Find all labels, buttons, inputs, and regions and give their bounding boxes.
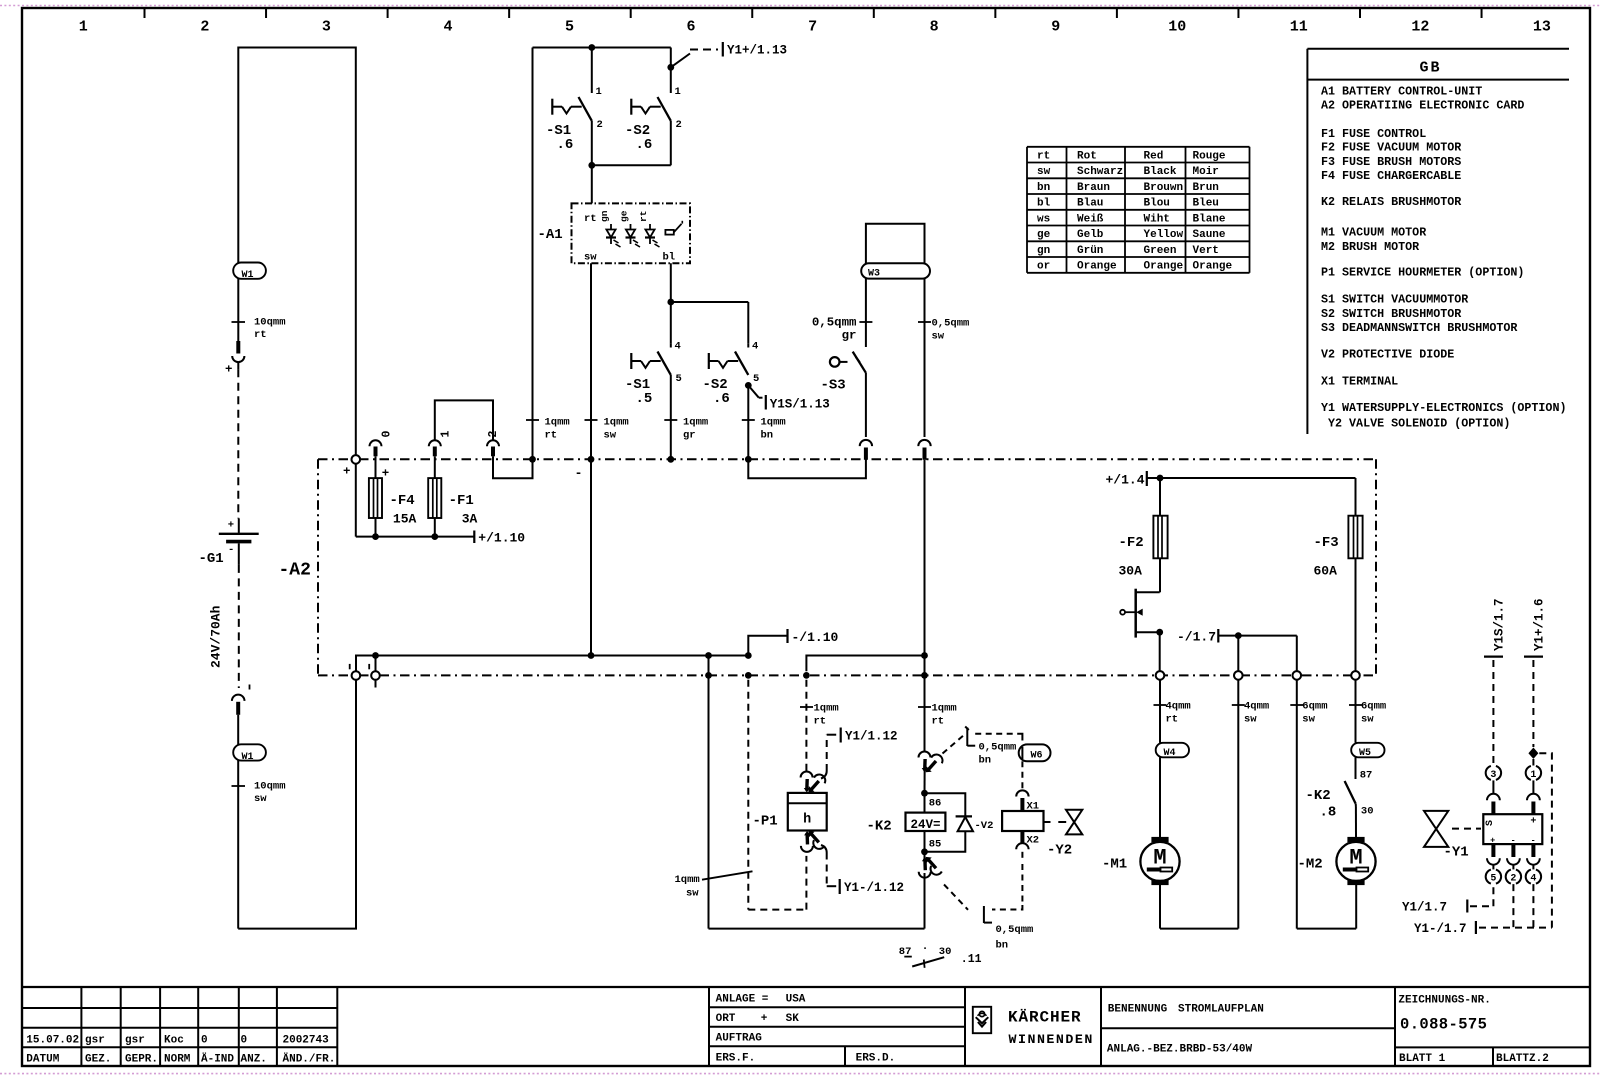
svg-text:ZEICHNUNGS-NR.: ZEICHNUNGS-NR.: [1398, 995, 1490, 1007]
svg-text:Rot: Rot: [1077, 150, 1097, 162]
svg-text:+: +: [1490, 835, 1495, 845]
svg-text:2: 2: [200, 19, 209, 36]
svg-text:Vert: Vert: [1193, 245, 1219, 257]
switch S2 upper (pins 1-2): [625, 48, 682, 154]
svg-text:13: 13: [1533, 19, 1551, 36]
svg-text:Weiß: Weiß: [1077, 213, 1104, 225]
svg-text:P1 SERVICE HOURMETER (OPTION): P1 SERVICE HOURMETER (OPTION): [1321, 265, 1524, 279]
terminal block X1: [1002, 811, 1043, 831]
svg-text:86: 86: [929, 798, 942, 810]
svg-text:bn: bn: [761, 430, 774, 442]
svg-text:W5: W5: [1359, 748, 1371, 759]
svg-text:ERS.D.: ERS.D.: [856, 1053, 896, 1065]
svg-text:M1 VACUUM MOTOR: M1 VACUUM MOTOR: [1321, 226, 1426, 240]
plug connector W3-sw to A2: [918, 440, 930, 460]
reference Y1+/1.13: [667, 42, 787, 71]
svg-text:-F4: -F4: [390, 493, 415, 509]
svg-text:6qmm: 6qmm: [1361, 701, 1386, 713]
svg-text:Brun: Brun: [1193, 182, 1219, 194]
reference -/1.10: [748, 629, 838, 656]
svg-text:3: 3: [1490, 770, 1496, 781]
svg-text:V2 PROTECTIVE DIODE: V2 PROTECTIVE DIODE: [1321, 347, 1454, 361]
svg-text:rt: rt: [545, 430, 558, 442]
svg-text:F1 FUSE CONTROL: F1 FUSE CONTROL: [1321, 127, 1426, 141]
cable marker W4: [1156, 743, 1189, 759]
contact cross-reference 87/30 .11: [899, 944, 982, 968]
svg-text:W1: W1: [242, 270, 254, 281]
svg-text:0,5qmm: 0,5qmm: [979, 742, 1017, 754]
svg-text:Ä-IND: Ä-IND: [201, 1053, 234, 1066]
svg-text:5: 5: [676, 373, 682, 385]
wire 1qmm rt riser and top rail: [526, 44, 671, 463]
svg-text:-/1.7: -/1.7: [1177, 630, 1216, 645]
plug connector K2 bottom: [919, 857, 942, 929]
svg-text:Wiht: Wiht: [1144, 213, 1170, 225]
svg-text:+/1.10: +/1.10: [478, 531, 525, 546]
svg-text:sw: sw: [584, 252, 597, 264]
vacuum motor M1: [1102, 757, 1180, 885]
svg-text:gn: gn: [1037, 245, 1050, 257]
svg-text:0,5qmm: 0,5qmm: [996, 924, 1034, 936]
svg-text:3A: 3A: [462, 512, 478, 527]
svg-text:Y1+/1.6: Y1+/1.6: [1532, 598, 1546, 651]
svg-text:24V/70Ah: 24V/70Ah: [209, 605, 224, 668]
fuse F1 3A: [428, 456, 477, 536]
wire designation 0,5qmm bn lower: [944, 885, 1033, 952]
svg-text:rt: rt: [1166, 714, 1179, 726]
svg-text:+: +: [761, 1013, 768, 1025]
svg-text:BLATT 1: BLATT 1: [1399, 1053, 1446, 1065]
svg-text:-Y1: -Y1: [1444, 845, 1469, 861]
svg-text:-F3: -F3: [1314, 535, 1339, 551]
svg-text:AUFTRAG: AUFTRAG: [716, 1033, 763, 1045]
svg-text:bn: bn: [996, 940, 1009, 952]
Kärcher Winnenden logo: [965, 987, 1101, 1066]
hourmeter P1: [753, 793, 827, 831]
svg-text:sw: sw: [254, 793, 267, 805]
terminal battery plus on boundary: [343, 455, 360, 478]
fuse F3 60A: [1314, 478, 1363, 671]
svg-text:-/1.10: -/1.10: [792, 630, 839, 645]
fuse F4 15A: [369, 456, 417, 536]
terminal battery minus pair on boundary: [350, 652, 380, 687]
svg-text:Y1 WATERSUPPLY-ELECTRONICS (OP: Y1 WATERSUPPLY-ELECTRONICS (OPTION): [1321, 401, 1566, 415]
svg-text:W3: W3: [868, 269, 880, 280]
svg-text:24V=: 24V=: [910, 818, 940, 832]
svg-text:bl: bl: [663, 252, 676, 264]
svg-text:A2 OPERATIING ELECTRONIC CARD: A2 OPERATIING ELECTRONIC CARD: [1321, 98, 1524, 112]
svg-text:30A: 30A: [1119, 564, 1143, 579]
svg-text:ge: ge: [1037, 229, 1051, 241]
svg-text:Black: Black: [1144, 166, 1177, 178]
svg-text:10qmm: 10qmm: [254, 781, 286, 793]
svg-text:Saune: Saune: [1193, 229, 1226, 241]
reference Y1S/1.13: [745, 382, 830, 412]
svg-text:BENENNUNG: BENENNUNG: [1108, 1004, 1168, 1016]
svg-text:sw: sw: [1361, 714, 1374, 726]
svg-text:Blane: Blane: [1193, 213, 1226, 225]
svg-text:0.088-575: 0.088-575: [1400, 1016, 1487, 1034]
valve Y1: [1424, 811, 1481, 861]
reference +/1.10: [474, 531, 525, 546]
svg-text:-: -: [1531, 835, 1536, 845]
wire P1 supply 1qmm rt (dashed): [800, 672, 839, 771]
svg-text:bn: bn: [1037, 182, 1050, 194]
switch S1 lower (pins 4-5): [625, 341, 682, 408]
svg-text:W1: W1: [242, 752, 254, 763]
A1 indicator LED gn: [599, 210, 621, 247]
svg-text:Y2 VALVE SOLENOID (OPTION): Y2 VALVE SOLENOID (OPTION): [1328, 417, 1510, 431]
svg-text:F3 FUSE BRUSH MOTORS: F3 FUSE BRUSH MOTORS: [1321, 155, 1461, 169]
svg-text:Y1/1.12: Y1/1.12: [845, 730, 898, 744]
svg-text:rt: rt: [584, 213, 597, 225]
svg-text:gn: gn: [599, 210, 610, 222]
switch S3 deadman pushbutton: [821, 352, 866, 437]
Y1 bottom pins 5 2 4: [1486, 844, 1501, 885]
svg-text:0: 0: [201, 1035, 208, 1047]
svg-text:4: 4: [675, 341, 681, 353]
plug connector X2 bottom: [1016, 831, 1039, 858]
svg-text:2: 2: [597, 119, 603, 131]
svg-text:0,5qmm: 0,5qmm: [812, 316, 857, 330]
svg-text:0,5qmm: 0,5qmm: [932, 318, 970, 330]
svg-text:Rouge: Rouge: [1193, 150, 1226, 162]
svg-text:Y1S/1.7: Y1S/1.7: [1492, 598, 1506, 651]
title block: [22, 987, 1590, 1066]
svg-text:1qmm: 1qmm: [683, 417, 708, 429]
A2 card boundary (dash-dot): [279, 459, 1377, 675]
svg-text:60A: 60A: [1314, 564, 1338, 579]
svg-text:ws: ws: [1037, 213, 1050, 225]
svg-text:rt: rt: [254, 329, 267, 341]
svg-text:S2 SWITCH BRUSHMOTOR: S2 SWITCH BRUSHMOTOR: [1321, 307, 1461, 321]
svg-text:-K2: -K2: [1306, 788, 1331, 804]
svg-text:Orange: Orange: [1193, 261, 1233, 273]
svg-text:+: +: [1530, 817, 1536, 828]
watersupply electronics Y1 box: [1483, 814, 1542, 845]
reference Y1/1.7: [1402, 884, 1493, 914]
svg-text:-G1: -G1: [199, 551, 224, 567]
svg-text:GEZ.: GEZ.: [85, 1054, 111, 1066]
svg-text:+/1.4: +/1.4: [1105, 473, 1144, 488]
svg-text:F4 FUSE CHARGERCABLE: F4 FUSE CHARGERCABLE: [1321, 169, 1461, 183]
svg-text:11: 11: [1290, 19, 1308, 36]
svg-text:rt: rt: [814, 716, 827, 728]
svg-text:sw: sw: [604, 430, 617, 442]
cable marker W5: [1351, 743, 1384, 759]
switch S1 upper (pins 1-2): [546, 48, 603, 154]
battery compartment outline: [238, 48, 355, 456]
svg-text:ÄND./FR.: ÄND./FR.: [283, 1053, 336, 1066]
svg-text:1: 1: [596, 86, 602, 98]
svg-text:-K2: -K2: [867, 819, 892, 835]
wire label 0,5qmm gr: [812, 316, 873, 343]
plug connector K2 top: [919, 752, 945, 773]
svg-text:Koc: Koc: [164, 1035, 184, 1047]
switch S2 lower (pins 4-5): [703, 302, 760, 407]
svg-text:1qmm: 1qmm: [761, 417, 786, 429]
svg-text:-F1: -F1: [449, 493, 474, 509]
svg-text:6qmm: 6qmm: [1302, 701, 1327, 713]
svg-text:sw: sw: [1037, 166, 1051, 178]
wire K2 coil node 86: [921, 675, 941, 812]
svg-text:sw: sw: [1244, 714, 1257, 726]
wire M2 return 6qmm sw: [1290, 680, 1356, 929]
wire 4qmm rt to M1: [1154, 680, 1191, 743]
svg-text:1qmm: 1qmm: [932, 703, 957, 715]
A1 indicator LED rt: [638, 211, 660, 247]
svg-text:.8: .8: [1320, 805, 1337, 821]
svg-text:5: 5: [565, 19, 574, 36]
svg-text:8: 8: [930, 19, 939, 36]
svg-text:-M1: -M1: [1102, 857, 1127, 873]
svg-text:Grün: Grün: [1077, 245, 1103, 257]
svg-text:1: 1: [440, 431, 453, 438]
svg-text:15.07.02: 15.07.02: [26, 1035, 79, 1047]
svg-text:-F2: -F2: [1119, 535, 1144, 551]
protective diode V2: [925, 793, 994, 852]
svg-text:rt: rt: [638, 211, 649, 222]
svg-text:4qmm: 4qmm: [1166, 701, 1191, 713]
svg-text:1qmm: 1qmm: [545, 417, 570, 429]
svg-text:4: 4: [443, 19, 452, 36]
svg-text:-: -: [1511, 835, 1516, 845]
svg-text:bn: bn: [979, 755, 992, 767]
svg-text:Moir: Moir: [1193, 166, 1219, 178]
svg-text:X1 TERMINAL: X1 TERMINAL: [1321, 375, 1398, 389]
svg-text:F2 FUSE VACUUM MOTOR: F2 FUSE VACUUM MOTOR: [1321, 140, 1461, 154]
svg-text:30: 30: [939, 946, 952, 958]
svg-text:Blou: Blou: [1144, 198, 1170, 210]
svg-text:NORM: NORM: [164, 1054, 191, 1066]
wire S1/S2 outputs join: [588, 121, 670, 204]
wire label 1qmm sw with leader: [675, 871, 753, 899]
svg-text:ERS.F.: ERS.F.: [716, 1053, 756, 1065]
reference Y1/1.12: [827, 728, 898, 772]
bridge connector 1 to connector 2: [435, 400, 493, 440]
svg-text:Schwarz: Schwarz: [1077, 166, 1123, 178]
Y1 plug pin 1: [1526, 766, 1541, 814]
svg-text:or: or: [1037, 261, 1050, 273]
wire 1qmm bn from S2.5 with jog to S3 plug: [742, 385, 866, 478]
svg-text:·: ·: [922, 944, 929, 956]
svg-text:A1 BATTERY CONTROL-UNIT: A1 BATTERY CONTROL-UNIT: [1321, 84, 1482, 98]
svg-text:+: +: [343, 465, 350, 479]
svg-text:5: 5: [1490, 874, 1496, 885]
svg-text:Bleu: Bleu: [1193, 198, 1219, 210]
A1 battery control unit box: [538, 203, 691, 263]
svg-text:1qmm: 1qmm: [675, 874, 700, 886]
connector 2 on boundary with jog: [487, 431, 533, 479]
battery plus plug connector: [225, 341, 244, 377]
cable W3 bridge wires: [866, 224, 925, 437]
svg-text:WINNENDEN: WINNENDEN: [1009, 1032, 1094, 1047]
svg-text:gr: gr: [683, 430, 696, 442]
svg-text:ORT: ORT: [716, 1013, 736, 1025]
svg-text:-V2: -V2: [975, 820, 994, 832]
svg-text:Green: Green: [1144, 245, 1177, 257]
svg-text:Orange: Orange: [1144, 261, 1184, 273]
svg-text:+: +: [228, 520, 234, 532]
svg-text:3: 3: [322, 19, 331, 36]
battery minus plug connector: [232, 695, 245, 715]
wire K2 coil node 85: [921, 831, 941, 864]
terminals on A2 bottom boundary (motor feeds): [1156, 671, 1360, 680]
svg-text:S1 SWITCH VACUUMMOTOR: S1 SWITCH VACUUMMOTOR: [1321, 293, 1468, 307]
fuse F2 30A: [1119, 478, 1168, 592]
reference Y1-/1.12: [827, 853, 904, 896]
svg-text:.5: .5: [636, 391, 653, 407]
cable marker W1 upper: [233, 263, 266, 282]
svg-text:Gelb: Gelb: [1077, 229, 1104, 241]
Y1 plug pin 3: [1486, 766, 1501, 814]
svg-text:sw: sw: [932, 331, 945, 343]
svg-text:1: 1: [1530, 770, 1536, 781]
svg-text:7: 7: [808, 19, 817, 36]
svg-text:1: 1: [79, 19, 88, 36]
wire A1 bl output: [667, 263, 748, 343]
wire colour code table: [1027, 147, 1250, 273]
reference -/1.7: [1177, 629, 1297, 671]
svg-text:ANLAG.-BEZ.BRBD-53/40W: ANLAG.-BEZ.BRBD-53/40W: [1107, 1044, 1253, 1056]
wire M1 return 4qmm sw: [1160, 680, 1269, 929]
svg-text:sw: sw: [1302, 714, 1315, 726]
svg-text:1: 1: [675, 86, 681, 98]
svg-text:4: 4: [1530, 874, 1536, 885]
svg-text:gr: gr: [842, 329, 857, 343]
wire battery negative (dashed): [239, 565, 250, 690]
svg-text:Blau: Blau: [1077, 198, 1103, 210]
plug connector P1 top: [801, 771, 828, 793]
svg-text:87: 87: [1360, 770, 1373, 782]
svg-text:ANZ.: ANZ.: [241, 1054, 267, 1066]
valve solenoid Y2: [1044, 810, 1083, 859]
svg-text:-A1: -A1: [538, 227, 563, 243]
svg-text:-S3: -S3: [821, 378, 846, 394]
wire 1qmm rt to K2 coil: [918, 703, 957, 728]
wire X2 return (dashed): [992, 864, 1022, 910]
plus feed wire to fuse rail: [356, 464, 474, 540]
svg-text:12: 12: [1411, 19, 1429, 36]
wire 0,5qmm sw down to relay branch: [921, 460, 928, 679]
svg-text:K2 RELAIS BRUSHMOTOR: K2 RELAIS BRUSHMOTOR: [1321, 195, 1461, 209]
GB legend box: [1307, 49, 1569, 434]
svg-text:USA: USA: [786, 994, 806, 1006]
svg-text:10qmm: 10qmm: [254, 317, 286, 329]
svg-text:S3 DEADMANNSWITCH BRUSHMOTOR: S3 DEADMANNSWITCH BRUSHMOTOR: [1321, 321, 1517, 335]
title block drawing data: [1101, 987, 1590, 1066]
wire label 0,5qmm sw: [918, 318, 969, 343]
P1 option dashed enclosure: [745, 672, 807, 910]
wire 1qmm gr from S1.5: [664, 375, 708, 463]
svg-text:9: 9: [1051, 19, 1060, 36]
plug connector X1 top: [1016, 790, 1039, 812]
svg-text:KÄRCHER: KÄRCHER: [1008, 1007, 1082, 1026]
reference Y1S/1.7 (vertical): [1484, 598, 1506, 765]
cable marker W3: [861, 263, 930, 279]
svg-text:85: 85: [929, 839, 942, 851]
svg-text:0: 0: [241, 1035, 248, 1047]
svg-text:-A2: -A2: [279, 561, 311, 581]
connector 0 on boundary: [370, 431, 394, 481]
svg-text:.6: .6: [636, 137, 653, 153]
svg-text:STROMLAUFPLAN: STROMLAUFPLAN: [1178, 1004, 1264, 1016]
wire minus feed down to pump/relay rail: [705, 656, 924, 929]
svg-text:4: 4: [752, 341, 758, 353]
connector 1 on boundary: [429, 431, 453, 457]
wire A1 sw output 1qmm sw: [575, 263, 629, 655]
svg-text:rt: rt: [932, 716, 945, 728]
wire 6qmm sw to K2 contact: [1349, 680, 1386, 743]
plug connector S3 to A2: [860, 440, 872, 460]
svg-text:.11: .11: [961, 953, 982, 966]
svg-text:bl: bl: [1037, 198, 1051, 210]
svg-text:2: 2: [1510, 874, 1516, 885]
svg-text:Y1-/1.12: Y1-/1.12: [844, 881, 904, 895]
A1 indicator LED ge: [619, 210, 641, 247]
junction diamond on Y1+ line: [1528, 748, 1538, 766]
negative rail inside A2 (right segment): [806, 656, 924, 672]
svg-text:.6: .6: [557, 137, 574, 153]
wire label 10qmm sw: [232, 781, 286, 806]
svg-text:15A: 15A: [393, 512, 417, 527]
svg-text:-P1: -P1: [753, 814, 778, 830]
svg-text:6: 6: [687, 19, 696, 36]
svg-text:2: 2: [487, 431, 500, 438]
svg-text:1qmm: 1qmm: [814, 703, 839, 715]
wire battery positive (dashed): [237, 369, 239, 518]
brush motor M2: [1298, 837, 1376, 885]
svg-text:Y1/1.7: Y1/1.7: [1402, 901, 1447, 915]
wire to terminal X1 (dashed) with W6: [975, 734, 1050, 790]
reference Y1-/1.7: [1414, 753, 1552, 936]
svg-text:Orange: Orange: [1077, 261, 1117, 273]
svg-text:h: h: [803, 813, 811, 828]
wire label 10qmm rt: [232, 317, 286, 342]
svg-text:gsr: gsr: [85, 1035, 105, 1047]
MOSFET switch on A2 card: [1120, 589, 1163, 671]
svg-text:-Y2: -Y2: [1047, 843, 1072, 859]
svg-text:-M2: -M2: [1298, 857, 1323, 873]
svg-text:0: 0: [381, 431, 394, 438]
svg-text:W6: W6: [1031, 751, 1043, 762]
svg-text:-: -: [575, 466, 583, 481]
svg-text:BLATTZ.2: BLATTZ.2: [1496, 1053, 1549, 1065]
svg-text:Red: Red: [1144, 150, 1164, 162]
relay contact K2 87/30: [1306, 757, 1374, 837]
wire designation 0,5qmm bn upper: [943, 727, 1017, 767]
svg-text:M2 BRUSH MOTOR: M2 BRUSH MOTOR: [1321, 240, 1419, 254]
svg-text:2002743: 2002743: [283, 1035, 330, 1047]
svg-text:GEPR.: GEPR.: [125, 1054, 158, 1066]
svg-text:5: 5: [753, 373, 759, 385]
svg-text:Y1+/1.13: Y1+/1.13: [727, 44, 787, 58]
svg-text:Y1-/1.7: Y1-/1.7: [1414, 922, 1467, 936]
svg-text:GB: GB: [1419, 60, 1441, 77]
svg-text:SK: SK: [786, 1013, 800, 1025]
battery G1 24V/70Ah: [199, 518, 259, 668]
svg-text:4qmm: 4qmm: [1244, 701, 1269, 713]
svg-text:ge: ge: [619, 210, 630, 222]
relay coil K2 24V=: [867, 813, 946, 835]
plug connector P1 bottom: [801, 831, 827, 853]
wire battery return to A2: [238, 680, 356, 929]
svg-text:+: +: [225, 363, 232, 377]
negative rail inside A2 (left segment): [356, 652, 752, 671]
svg-text:1qmm: 1qmm: [604, 417, 629, 429]
svg-text:2: 2: [676, 119, 682, 131]
svg-text:Y1S/1.13: Y1S/1.13: [770, 398, 830, 412]
